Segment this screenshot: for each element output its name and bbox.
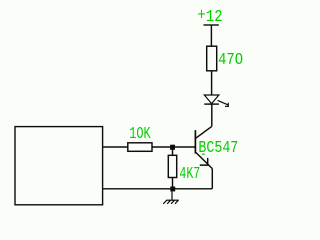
wire: 470 resistor to LED anode bbox=[211, 71, 213, 95]
transistor Q1 base bar bbox=[194, 130, 196, 154]
transistor Q1 emitter diagonal bbox=[196, 152, 213, 168]
wire: power stem to 470 bbox=[210, 25, 212, 46]
svg-text:BC547: BC547 bbox=[198, 139, 238, 158]
transistor Q1 emitter arrow bbox=[200, 158, 208, 165]
resistor R3 470 bbox=[207, 46, 217, 71]
green tick under BC547 bbox=[202, 154, 204, 155]
svg-text:12: 12 bbox=[206, 8, 223, 27]
wire: 4K7 to ground rail bbox=[172, 178, 174, 189]
wire: base node down to 4K7 bbox=[172, 147, 174, 155]
power symbol +12 bar bbox=[204, 24, 219, 26]
wire: base node to transistor base bbox=[173, 146, 196, 148]
wire: emitter to ground rail bbox=[211, 169, 213, 189]
wire: 10K to base node bbox=[152, 146, 173, 148]
LED light arrow bbox=[218, 100, 229, 106]
node: ground junction dot bbox=[170, 187, 175, 192]
svg-text:47O: 47O bbox=[218, 51, 243, 70]
svg-text:+: + bbox=[197, 6, 205, 25]
wire: collector up to LED cathode bbox=[211, 104, 213, 126]
wire: ground rail (box lower pin to emitter) bbox=[103, 188, 213, 190]
module box U1 bbox=[15, 127, 103, 205]
resistor R1 10K bbox=[128, 143, 152, 152]
LED D1 cathode bar bbox=[204, 103, 219, 105]
node: base junction dot bbox=[170, 145, 175, 150]
svg-text:4K7: 4K7 bbox=[179, 165, 200, 184]
transistor Q1 collector diagonal bbox=[196, 126, 212, 138]
resistor R2 4K7 bbox=[168, 155, 176, 177]
ground symbol bbox=[163, 189, 179, 204]
LED D1 triangle bbox=[204, 95, 219, 104]
svg-text:1OK: 1OK bbox=[129, 125, 151, 144]
wire: box upper pin to 10K resistor bbox=[103, 146, 128, 148]
